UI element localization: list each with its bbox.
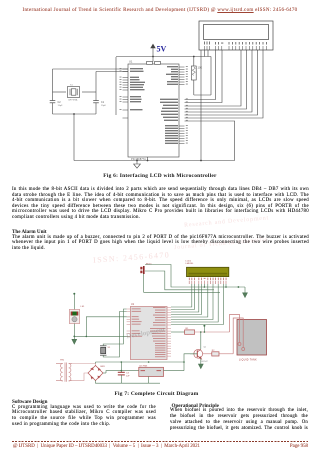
capacitor C1 [93,101,99,103]
node junction 5V rail [152,56,154,58]
svg-text:X1: X1 [70,85,73,87]
svg-text:U1: U1 [131,303,135,306]
right column [172,403,219,409]
paragraph alarm [12,235,309,252]
caption fig 6 [0,173,320,179]
svg-text:BC547: BC547 [202,361,209,363]
probe wire 2 [233,318,245,354]
svg-text:15pF: 15pF [58,105,64,107]
wire OSC1 [53,68,129,70]
capacitor C2 [50,101,56,103]
LCD pin labels [204,42,267,45]
MCU pin numbers right [186,66,188,143]
node junction lcd gnd [238,286,240,288]
MCU left pin stubs [127,309,131,336]
footer [12,441,308,442]
LCD pin stubs [205,46,267,50]
figure 6 svg placeholder [0,0,320,172]
wire bus L1 [185,50,264,161]
MCU pin name text right [160,66,178,144]
crystal X1 [100,346,111,355]
wire bottom rail [74,157,235,161]
wire transformer to bridge [72,362,96,381]
wire OSC2 [96,71,128,73]
wire C2 bottom [52,103,54,114]
wire collector [200,332,202,349]
wire lcd data bundle [171,284,226,325]
wire loop bottom [53,113,97,115]
wire ra pin [86,317,130,337]
wire buzzer B [145,271,214,290]
ground [134,161,141,169]
wire bus L2 [185,50,223,103]
wire buzzer C [144,274,220,292]
resistor R2 [203,350,233,356]
watermarks [93,250,171,264]
wire regulator out [164,370,185,372]
svg-text:Q1: Q1 [204,347,208,349]
svg-text:BR1: BR1 [101,366,106,368]
wire buzzer A [144,265,245,293]
MCU right pin stubs [167,308,171,357]
svg-text:LIQUID TANK: LIQUID TANK [239,359,257,362]
wire crystal osc2 [103,312,126,358]
regulator U2 7805 [139,366,164,384]
figure 7 svg placeholder [0,252,320,390]
svg-text:C3: C3 [126,373,130,375]
transistor Q1 [190,349,203,358]
MCU right pin stubs [179,67,185,144]
wire loop to rail [73,114,75,161]
svg-text:15pF: 15pF [101,105,107,107]
ground sounder [72,336,77,344]
svg-text:1uF: 1uF [126,375,130,377]
wire rail right corner down [210,57,212,96]
wire bus L7 [185,50,264,118]
node junction resistor top [193,56,195,58]
wire VEE stub [207,50,209,57]
wire bridge out [103,371,139,373]
node junction sounder gnd [73,336,75,338]
heading alarm [12,229,47,235]
wire bus L4 [185,50,247,109]
LCD1 pin labels [189,278,227,280]
power tap [203,325,205,333]
svg-text:U1: U1 [129,60,133,64]
MCU pin name text left [130,68,145,110]
header [0,8,320,13]
wire left drop [115,57,117,115]
node loop junction [73,113,75,115]
wire top rail [116,56,211,58]
microcontroller U1 [130,303,167,359]
microcontroller U1 PIC16F877A [128,64,179,157]
caption fig 7 [0,391,313,397]
capacitor C3 [118,362,130,383]
svg-text:10K: 10K [198,66,203,70]
power 5V symbol [151,44,155,61]
wire emitter + ground [198,358,203,368]
wire 5v rail [96,354,198,371]
MCU left pin stubs [123,69,129,118]
wire bus L5 [185,50,253,112]
LCD1 display body [187,267,229,276]
svg-text:CRYSTAL: CRYSTAL [68,99,79,102]
wire C1 top drop [95,72,97,101]
svg-text:LM016L: LM016L [186,263,195,265]
svg-text:TR1: TR1 [60,359,65,361]
MCU pin numbers left [120,68,122,110]
resistor 10K [191,57,211,96]
bridge rectifier BR1 [88,366,103,381]
wire crystal osc1 [103,309,126,357]
wire VDD stub [204,50,206,57]
LCD module LCD1 [199,21,273,50]
crystal X1 [53,87,97,98]
wire gnd return [96,381,161,384]
svg-text:C2: C2 [58,101,62,104]
transformer TR1 [56,359,72,381]
buzzer BUZ1 [140,264,152,275]
paragraph 1 [12,187,309,220]
resistor R1 [171,328,230,334]
svg-text:LCD1: LCD1 [186,261,192,263]
left column [12,399,47,405]
probe wire 1 [230,315,242,346]
wire C2 top drop [52,69,54,101]
wire bus L8 RW to ground [185,121,235,161]
MCU pin text right [150,307,166,357]
wire sounder to mcu [74,335,130,337]
svg-text:C1: C1 [101,101,105,104]
svg-text:X1: X1 [108,347,111,349]
wire bus L6 [185,50,258,115]
ground lcd [243,287,248,298]
MCU pin text left [132,308,143,336]
wire bus L3 [185,50,242,106]
wire C1 bottom [95,103,97,114]
LCD1 pin stubs [189,281,226,284]
sounder LS1 [69,293,85,337]
liquid tank [237,320,267,362]
svg-text:5V: 5V [157,45,167,54]
wire VSS drop [200,50,202,161]
svg-text:LS1: LS1 [81,306,86,308]
